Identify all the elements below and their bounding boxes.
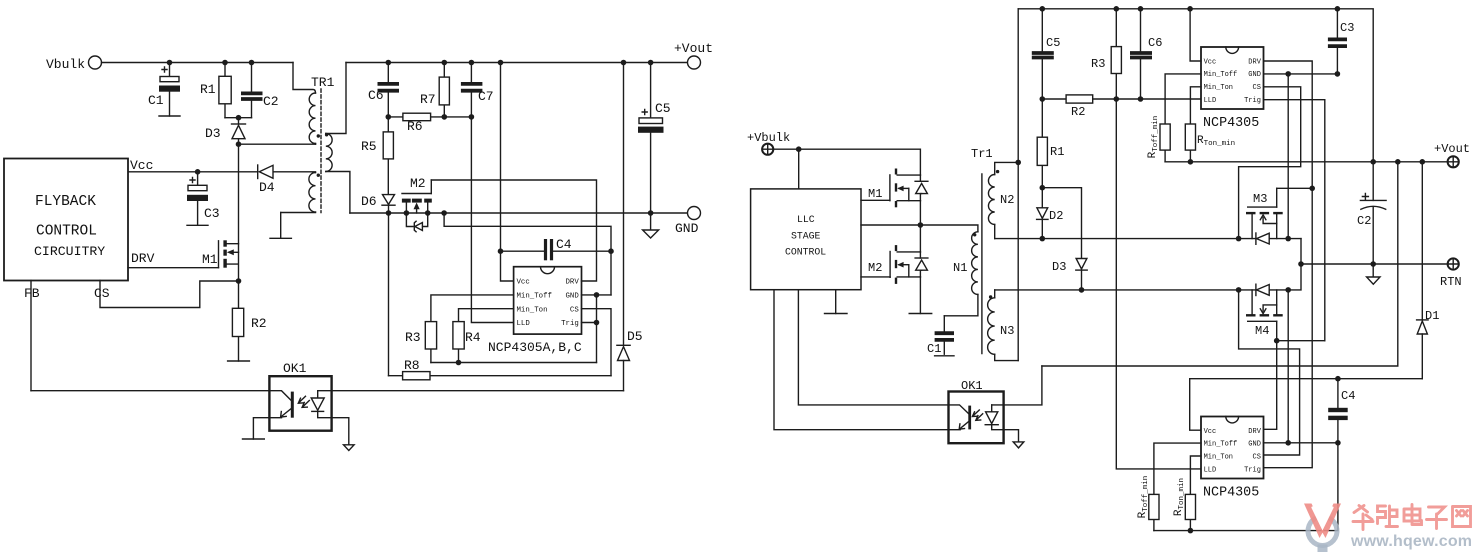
wire R1-C2 node xyxy=(225,117,252,119)
transistor M2 xyxy=(868,245,928,284)
svg-text:R2: R2 xyxy=(251,316,267,331)
wire OK1 collector out xyxy=(318,390,624,392)
wire R3 R4 gnd line xyxy=(431,360,597,366)
svg-text:C2: C2 xyxy=(1357,214,1371,228)
svg-text:C5: C5 xyxy=(655,101,671,116)
ground OK1 led xyxy=(332,418,355,451)
wire CS sense xyxy=(100,281,239,308)
wire M3 gate to DRV xyxy=(1277,186,1315,192)
capacitor C6 xyxy=(1130,9,1162,99)
svg-text:R3: R3 xyxy=(1091,57,1105,71)
ground R2 xyxy=(228,360,250,362)
resistor R5 xyxy=(361,117,393,195)
svg-text:D5: D5 xyxy=(627,329,643,344)
svg-text:C4: C4 xyxy=(1341,389,1355,403)
node Vbulk terminal xyxy=(46,56,102,72)
transformer TR1 xyxy=(311,75,335,213)
svg-text:GND: GND xyxy=(675,221,699,236)
svg-text:M3: M3 xyxy=(1253,192,1267,206)
WATERMARK xyxy=(1304,504,1472,553)
transistor M2 xyxy=(402,176,432,213)
svg-text:NCP4305: NCP4305 xyxy=(1203,486,1259,501)
svg-text:CONTROL: CONTROL xyxy=(785,247,826,258)
capacitor C1 xyxy=(148,63,180,117)
op-amp U1 NCP4305A,B,C xyxy=(488,267,582,355)
svg-text:D2: D2 xyxy=(1049,209,1063,223)
wire top GND to M3 source xyxy=(1287,74,1289,239)
svg-text:N2: N2 xyxy=(1000,193,1014,207)
svg-text:C5: C5 xyxy=(1046,36,1060,50)
op-amp U2 NCP4305 top xyxy=(1201,47,1264,131)
svg-text:NCP4305A,B,C: NCP4305A,B,C xyxy=(488,340,582,355)
svg-text:C6: C6 xyxy=(1148,36,1162,50)
diode D1 xyxy=(1417,162,1440,379)
junction dots C6 node xyxy=(386,114,475,120)
svg-text:CS: CS xyxy=(1253,454,1261,462)
capacitor C3 xyxy=(1328,9,1355,74)
svg-text:R7: R7 xyxy=(420,92,436,107)
wire top GND row xyxy=(1264,71,1341,77)
svg-text:Vcc: Vcc xyxy=(1204,428,1217,436)
svg-text:CIRCUITRY: CIRCUITRY xyxy=(34,244,105,259)
resistor R_Toff_min top xyxy=(1147,74,1201,162)
wire bottom DRV to M4 gate xyxy=(1264,341,1277,430)
wire M3 row connection xyxy=(1300,239,1302,264)
diode D5 xyxy=(617,63,643,391)
svg-text:LLD: LLD xyxy=(1204,97,1217,105)
resistor R2 xyxy=(1040,95,1202,119)
svg-text:M1: M1 xyxy=(202,252,218,267)
svg-text:NCP4305: NCP4305 xyxy=(1203,116,1259,131)
wire DRV xyxy=(128,267,219,269)
svg-text:R2: R2 xyxy=(1071,105,1085,119)
node R1 bottom xyxy=(1040,185,1082,259)
svg-text:D4: D4 xyxy=(259,180,275,195)
svg-text:Min_Ton: Min_Ton xyxy=(517,306,548,314)
wire FB xyxy=(30,281,32,391)
winding N2 xyxy=(988,162,1018,238)
winding N3 xyxy=(988,290,1019,361)
wire DRV to M2 gate xyxy=(431,180,596,281)
svg-text:R1: R1 xyxy=(1050,145,1064,159)
diode D3 xyxy=(1052,259,1087,290)
svg-text:C4: C4 xyxy=(556,237,572,252)
body diode M2 xyxy=(406,213,427,232)
svg-text:LLD: LLD xyxy=(517,320,531,328)
wire bottom CS to M4 drain xyxy=(1239,290,1300,455)
ground TR1 aux xyxy=(270,213,291,239)
wire LLC mid xyxy=(861,224,920,226)
svg-text:Min_Toff: Min_Toff xyxy=(517,293,552,301)
LEFT-CIRCUIT xyxy=(4,41,713,451)
wire OK1 collector up xyxy=(992,366,1042,405)
svg-text:DRV: DRV xyxy=(1248,428,1261,436)
svg-text:Vcc: Vcc xyxy=(130,158,153,173)
op-amp U3 NCP4305 bottom xyxy=(1201,417,1264,501)
node RTN terminal xyxy=(1440,258,1462,289)
capacitor C6 xyxy=(368,63,399,117)
svg-text:TR1: TR1 xyxy=(311,75,335,90)
wire FB to OK1 xyxy=(31,390,269,392)
ground M2 source xyxy=(909,277,932,314)
ground OK1 right xyxy=(1004,430,1024,448)
wire secondary row2 xyxy=(995,264,1301,293)
svg-text:C6: C6 xyxy=(368,88,384,103)
wire GND pin xyxy=(582,294,612,296)
resistor R_Toff_min bottom xyxy=(1137,443,1201,530)
resistor R1 xyxy=(200,63,231,118)
wire +Vout row xyxy=(1165,159,1447,165)
svg-text:STAGE: STAGE xyxy=(791,231,821,242)
wire top Trig to M4 gate xyxy=(1264,100,1325,341)
winding TR1 secondary xyxy=(325,63,350,214)
wire secondary row1 xyxy=(995,236,1301,242)
capacitor C2 xyxy=(1357,162,1386,264)
svg-text:Min_Toff: Min_Toff xyxy=(1204,441,1238,449)
junction dots output rail xyxy=(386,60,654,66)
wire top DRV to M3 gate and bottom Trig xyxy=(1264,61,1313,468)
box LLC STAGE CONTROL xyxy=(751,189,861,290)
svg-text:N3: N3 xyxy=(1000,324,1014,338)
node GND terminal xyxy=(675,207,701,237)
svg-text:www.hqew.com: www.hqew.com xyxy=(1350,533,1472,550)
junction dots on Vbulk rail xyxy=(167,60,255,66)
svg-text:R5: R5 xyxy=(361,139,377,154)
transistor M1 xyxy=(202,240,239,281)
optocoupler OK1 right xyxy=(949,379,1004,443)
svg-text:LLC: LLC xyxy=(797,214,815,225)
svg-text:DRV: DRV xyxy=(1248,58,1261,66)
wire M4 source to bottom GND xyxy=(1287,290,1289,443)
ground OK1 emitter xyxy=(243,418,270,439)
svg-text:FB: FB xyxy=(24,286,40,301)
svg-text:Trig: Trig xyxy=(1244,97,1261,105)
svg-text:D3: D3 xyxy=(205,126,221,141)
resistor R_Ton_min top xyxy=(1185,87,1235,162)
svg-text:Min_Toff: Min_Toff xyxy=(1204,71,1238,79)
svg-text:C1: C1 xyxy=(927,342,941,356)
svg-text:C2: C2 xyxy=(263,94,279,109)
wire OK1 collector row xyxy=(1042,162,1398,366)
ground LLC xyxy=(825,290,848,314)
svg-text:R1: R1 xyxy=(200,82,216,97)
wire top CS to M3 drain xyxy=(1239,87,1301,239)
capacitor C5 xyxy=(1032,9,1061,99)
svg-text:M1: M1 xyxy=(868,187,882,201)
resistor R6 xyxy=(388,113,471,134)
wire bottom gnd rail xyxy=(1154,443,1338,534)
wire D6 to R8 xyxy=(388,213,390,376)
svg-text:Trig: Trig xyxy=(1244,467,1261,475)
svg-text:CS: CS xyxy=(570,306,579,314)
transistor M1 xyxy=(868,169,928,208)
svg-text:C3: C3 xyxy=(1340,21,1354,35)
node +Vbulk terminal xyxy=(747,131,790,155)
capacitor C4 xyxy=(1328,379,1355,443)
wire LLC pin to OK1 bottom xyxy=(774,290,949,430)
transformer Tr1 core xyxy=(971,147,993,354)
capacitor C2 xyxy=(241,63,279,118)
resistor R4 xyxy=(453,309,514,363)
svg-text:CS: CS xyxy=(94,286,110,301)
resistor R3 xyxy=(1091,9,1121,99)
wire M4 gate node xyxy=(1274,338,1325,344)
winding TR1 primary xyxy=(293,63,320,145)
transistor M4 xyxy=(1246,284,1283,341)
wire GND-Trig tie xyxy=(596,295,598,363)
svg-text:R4: R4 xyxy=(465,330,481,345)
svg-text:D1: D1 xyxy=(1425,309,1439,323)
diode D3 xyxy=(205,118,246,145)
svg-text:FLYBACK: FLYBACK xyxy=(35,194,96,210)
node +Vout terminal xyxy=(1434,142,1470,167)
wire LLC gate M2 xyxy=(861,276,890,278)
svg-text:M2: M2 xyxy=(410,176,426,191)
svg-text:Vbulk: Vbulk xyxy=(46,57,85,72)
node half-bridge mid xyxy=(918,201,924,252)
wire Vbulk to M1 xyxy=(774,146,921,189)
ground C5 xyxy=(643,213,659,238)
capacitor C4 xyxy=(498,237,614,260)
diode D6 xyxy=(361,194,395,213)
RIGHT-CIRCUIT xyxy=(747,6,1470,533)
svg-text:CONTROL: CONTROL xyxy=(36,224,97,240)
svg-text:R3: R3 xyxy=(405,330,421,345)
svg-text:+Vout: +Vout xyxy=(674,41,713,56)
svg-text:OK1: OK1 xyxy=(961,379,983,393)
svg-text:Min_Ton: Min_Ton xyxy=(1204,454,1233,462)
wire top rail xyxy=(1018,6,1373,162)
svg-text:M2: M2 xyxy=(868,261,882,275)
capacitor C7 xyxy=(461,63,494,117)
wire LLC gate M1 xyxy=(861,199,890,201)
wire LLC pin to OK1 top xyxy=(798,290,948,405)
svg-text:D3: D3 xyxy=(1052,260,1066,274)
wire Vbulk rail xyxy=(102,62,294,64)
node R1C2D3 xyxy=(236,115,242,121)
svg-text:D6: D6 xyxy=(361,194,377,209)
wire RTN row xyxy=(1298,261,1447,267)
svg-text:C7: C7 xyxy=(478,89,494,104)
wire output rail xyxy=(346,62,688,64)
wire LLD riser xyxy=(471,117,513,323)
svg-text:C1: C1 xyxy=(148,93,164,108)
wire M2 source to GND pin xyxy=(444,213,611,295)
wire bottom GND row xyxy=(1264,440,1341,446)
junction dots GND row xyxy=(386,210,654,216)
svg-text:Vcc: Vcc xyxy=(1204,58,1217,66)
node +Vout terminal xyxy=(674,41,713,69)
wire N2top N3bot bus xyxy=(1015,9,1021,361)
transistor M3 xyxy=(1246,188,1283,244)
capacitor C5 xyxy=(638,63,671,214)
node M1 source xyxy=(236,278,242,284)
svg-text:DRV: DRV xyxy=(131,251,155,266)
ground C2 xyxy=(1367,264,1380,284)
resistor R7 xyxy=(420,63,449,117)
winding N1 xyxy=(920,225,978,316)
svg-text:CS: CS xyxy=(1253,84,1261,92)
capacitor C1 xyxy=(927,316,954,356)
box FLYBACK CONTROL CIRCUITRY xyxy=(4,158,155,301)
wire LLD riser to bottom IC xyxy=(1116,99,1201,469)
svg-text:OK1: OK1 xyxy=(283,361,307,376)
wire M1 drain bus xyxy=(238,144,240,244)
svg-text:GND: GND xyxy=(1248,71,1261,79)
capacitor C3 xyxy=(187,169,220,225)
svg-text:+Vout: +Vout xyxy=(1434,142,1470,156)
svg-text:RTN: RTN xyxy=(1440,275,1462,289)
resistor R3 xyxy=(405,295,514,363)
resistor R_Ton_min bottom xyxy=(1173,456,1201,531)
svg-text:M4: M4 xyxy=(1255,324,1269,338)
wire top Vcc xyxy=(1190,9,1201,61)
diode D2 xyxy=(1037,188,1064,239)
svg-text:Trig: Trig xyxy=(561,320,579,328)
svg-text:C3: C3 xyxy=(204,206,220,221)
wire Vcc riser xyxy=(501,63,514,282)
wire Trig pin xyxy=(582,322,597,324)
svg-text:Min_Ton: Min_Ton xyxy=(1204,84,1233,92)
resistor R8 xyxy=(389,358,612,380)
svg-text:GND: GND xyxy=(566,293,580,301)
svg-text:Tr1: Tr1 xyxy=(971,147,993,161)
svg-text:Vcc: Vcc xyxy=(517,279,530,287)
diode D4 xyxy=(128,165,275,195)
svg-text:LLD: LLD xyxy=(1204,467,1217,475)
wire C4 row xyxy=(1190,376,1423,430)
resistor R2 xyxy=(232,281,266,361)
node D3 bottom xyxy=(236,141,242,147)
optocoupler OK1 xyxy=(269,361,331,431)
svg-text:R8: R8 xyxy=(404,358,420,373)
svg-text:GND: GND xyxy=(1248,441,1261,449)
wire CS pin to R8 xyxy=(582,309,612,376)
svg-text:DRV: DRV xyxy=(566,279,580,287)
resistor R1 xyxy=(1037,99,1064,188)
wire GND row xyxy=(350,212,688,214)
svg-text:N1: N1 xyxy=(953,261,967,275)
svg-text:R6: R6 xyxy=(407,119,423,134)
winding TR1 aux xyxy=(273,172,320,213)
wire D3 to primary bottom xyxy=(239,143,316,145)
